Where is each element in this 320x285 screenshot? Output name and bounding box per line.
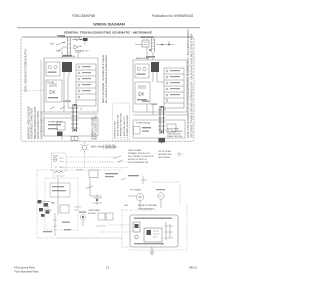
wire L1 top feed	[72, 39, 88, 41]
left bus wire outer	[41, 58, 44, 136]
fuse F1	[74, 38, 80, 40]
svg-text:4. POWER RELAY ASM: 4. POWER RELAY ASM	[126, 115, 129, 139]
marks under pair	[96, 225, 106, 227]
node J5	[96, 199, 98, 201]
box label smudge	[137, 99, 147, 100]
dashed drop right of M4	[179, 184, 181, 205]
HV diode D1	[50, 90, 54, 94]
svg-text:SENSING SW: SENSING SW	[158, 154, 171, 156]
PCB component cluster	[167, 124, 176, 132]
svg-text:FAN: FAN	[51, 202, 56, 205]
bottom-of-box label smudge 1	[142, 101, 149, 102]
label above box	[146, 56, 155, 58]
M4 label	[156, 189, 165, 190]
ladder component vertical pair	[152, 38, 155, 52]
svg-text:08/10: 08/10	[189, 265, 197, 269]
chassis boundary left	[36, 170, 38, 238]
svg-text:PRIMARY INTERLOCK: PRIMARY INTERLOCK	[128, 152, 150, 155]
lower note list	[103, 145, 116, 150]
power source box	[52, 153, 67, 171]
wire row y167	[60, 167, 128, 169]
filter box F2	[142, 40, 149, 47]
pcb top label smudge	[134, 218, 172, 220]
pcb left connector	[133, 222, 140, 232]
interlock switch SW2	[58, 48, 63, 50]
box internals diode	[139, 92, 143, 96]
connector dark mark	[135, 224, 139, 228]
pcb ground lead	[151, 247, 153, 252]
legend dashed box	[113, 103, 130, 140]
svg-text:Narrow door handle - Gri Leade: Narrow door handle - Gri Leader line to …	[102, 54, 105, 103]
inner dashed enclosure	[45, 178, 78, 230]
interlock switch SW3	[113, 156, 121, 158]
inner text box	[50, 183, 70, 197]
dashed wire into pcb 1	[108, 224, 130, 226]
label top small	[57, 35, 65, 36]
interlock legend block	[128, 149, 171, 164]
svg-text:H.V.TRANS: H.V.TRANS	[130, 188, 142, 191]
transformer cluster vertical pair	[160, 106, 164, 134]
wire below symbol	[84, 153, 86, 168]
outer schematic border top	[23, 36, 192, 38]
svg-text:*Non-Illustrated Parts: *Non-Illustrated Parts	[14, 270, 39, 274]
TB1 row dividers	[76, 70, 96, 100]
bottom stub component	[71, 137, 78, 141]
keypad terminal circles	[166, 70, 168, 72]
left schematic tiny labels	[47, 36, 89, 123]
pcb bottom terminal text	[134, 243, 164, 244]
cluster node bottom	[161, 131, 163, 133]
T2 label smudge	[137, 74, 146, 75]
node J1	[63, 42, 65, 44]
left text block	[88, 209, 100, 215]
power source terminals	[60, 158, 64, 162]
lower box component	[57, 122, 65, 130]
right feed wire	[135, 44, 174, 46]
RY2 legs	[153, 72, 157, 76]
ladder component vertical pair	[68, 38, 71, 58]
wire drops to main box	[62, 51, 78, 59]
outer schematic border sides and bottom	[21, 37, 194, 141]
dashed feed above M4	[152, 181, 180, 183]
keypad row dividers	[164, 74, 184, 103]
svg-text:1. DOOR SENSING SW: 1. DOOR SENSING SW	[118, 114, 120, 139]
fan motor M4	[158, 193, 164, 199]
svg-text:HV CAP: HV CAP	[47, 81, 55, 84]
cluster node bottom	[74, 129, 76, 131]
pcb title lines	[124, 204, 157, 210]
node J4	[168, 44, 170, 46]
bottom-right note block	[167, 129, 183, 139]
thermal cutout TCO1	[83, 38, 88, 41]
circle component lower mid	[81, 215, 86, 220]
M3 lead	[128, 196, 140, 208]
svg-text:PWB ASSEMBLY: PWB ASSEMBLY	[138, 207, 155, 210]
TB1 label smudges	[82, 66, 91, 67]
TB1 terminal circles	[78, 66, 80, 68]
lower box label smudge 2	[48, 128, 58, 129]
filter box inner mark	[144, 42, 148, 45]
svg-text:GENERAL TROUBLESHOOTING SCHEMA: GENERAL TROUBLESHOOTING SCHEMATIC - MICR…	[64, 30, 152, 34]
node J3	[161, 44, 163, 46]
PCB inner small box	[134, 127, 141, 135]
svg-text:DOOR CLOSED COND: DOOR CLOSED COND	[96, 115, 98, 140]
small coil near junction	[76, 169, 82, 170]
HV capacitor C1 box	[46, 80, 62, 102]
svg-text:MAGNETRON: MAGNETRON	[136, 57, 150, 60]
svg-text:SW2: SW2	[56, 50, 61, 52]
svg-text:LATCH ASM: LATCH ASM	[158, 156, 170, 159]
right schematic tiny labels	[136, 37, 167, 125]
transformer cluster vertical pair	[73, 104, 77, 132]
pcb circle component	[135, 235, 139, 239]
lower-left text smudge	[43, 231, 52, 232]
svg-text:MAGNETRON: MAGNETRON	[62, 55, 76, 58]
chain marks	[53, 220, 57, 226]
K1 inner marks	[153, 231, 159, 237]
svg-text:FUSE TCO SW: FUSE TCO SW	[140, 37, 154, 39]
C1 plates	[49, 84, 57, 86]
T2 coil 1	[137, 67, 140, 70]
low voltage transformer T2 box	[135, 64, 149, 78]
right small marks	[177, 152, 183, 157]
buzzer BZ1	[159, 138, 166, 143]
control PCB box	[130, 215, 178, 255]
footer functional parts note	[14, 266, 39, 274]
wires inside enclosure	[147, 76, 164, 115]
node J2	[80, 39, 82, 41]
svg-text:SW1: SW1	[50, 44, 55, 46]
terminal strip TB1	[76, 64, 96, 106]
marks right of it	[74, 207, 81, 210]
svg-text:ANY METAL PARTS OK: ANY METAL PARTS OK	[39, 111, 43, 139]
turntable motor M3	[136, 193, 143, 200]
svg-text:WIRING DIAGRAM: WIRING DIAGRAM	[93, 23, 125, 27]
chassis boundary bottom left	[37, 237, 122, 239]
label above ladder	[141, 36, 153, 38]
svg-text:WHEN TESTING: WHEN TESTING	[167, 136, 183, 138]
mid row label smudge 1	[105, 173, 118, 174]
right schematic main enclosure	[133, 60, 187, 112]
mid row junction mark	[141, 176, 147, 184]
circle label	[79, 212, 86, 213]
left partition dashed line	[22, 90, 45, 92]
left dashed boundary of pcb area	[122, 210, 158, 247]
M3 inner mark	[138, 195, 142, 199]
svg-text:NOISE FILTER ASM: NOISE FILTER ASM	[138, 204, 157, 207]
svg-text:SCHEMATIC SHOWN: SCHEMATIC SHOWN	[92, 117, 95, 140]
rotation symbol	[81, 143, 89, 169]
PCB inner label smudge	[142, 127, 151, 128]
box bottom marks	[54, 166, 63, 168]
svg-text:3. MONITOR SWITCH: 3. MONITOR SWITCH	[124, 116, 126, 138]
svg-text:Publication No: 5995W59402: Publication No: 5995W59402	[152, 14, 194, 18]
power source symbol	[53, 158, 57, 162]
mid smudge 2	[64, 229, 71, 230]
coil L2	[55, 172, 63, 174]
component near J5	[93, 194, 102, 205]
K1 dark mark	[147, 230, 152, 235]
control fuse box	[135, 82, 150, 104]
wire stub down right	[84, 41, 86, 45]
capacitor C0	[75, 51, 81, 53]
coil label	[56, 175, 64, 177]
cluster core bars	[71, 108, 79, 128]
ladder rungs	[68, 40, 71, 52]
svg-text:SYMBOLS USED: SYMBOLS USED	[115, 121, 117, 139]
mid row label smudge 3	[128, 175, 139, 176]
title rule	[17, 27, 200, 29]
pcb right components	[166, 222, 170, 240]
below-box component dark	[57, 132, 63, 137]
magnetron MG1 (dark block)	[62, 62, 72, 72]
svg-text:2. PRIMARY INTERLOCK: 2. PRIMARY INTERLOCK	[120, 113, 123, 139]
mid smudge 1	[62, 222, 70, 223]
svg-text:NF: NF	[79, 46, 82, 48]
vertical drop to enclosure	[147, 47, 153, 60]
junction small box	[89, 170, 98, 178]
dark connector cluster	[38, 200, 50, 217]
circle dark center	[82, 216, 84, 218]
label above box	[63, 55, 72, 57]
svg-text:CAV TCO: CAV TCO	[80, 49, 89, 52]
relay contact row	[50, 107, 65, 109]
svg-text:line connection to chassis asm: line connection to chassis asm ground te…	[105, 55, 108, 103]
chassis boundary top	[37, 169, 122, 171]
left lower vertical note column	[27, 106, 44, 139]
svg-text:NOTE: DISCONNECT POWER SUPPLY: NOTE: DISCONNECT POWER SUPPLY	[25, 48, 28, 92]
left chain wire down	[54, 213, 56, 236]
dashed supply wires	[37, 157, 187, 250]
M4 inner mark	[159, 195, 163, 197]
svg-text:FUSE TCO INTLK SW: FUSE TCO INTLK SW	[60, 36, 80, 38]
svg-text:MONITOR SWITCH: MONITOR SWITCH	[128, 159, 147, 161]
monitor switch SW1	[56, 42, 63, 44]
symbol inner dot	[55, 159, 56, 160]
left schematic main enclosure	[44, 58, 98, 112]
svg-text:SECONDARY INTERLOCK: SECONDARY INTERLOCK	[128, 155, 154, 158]
display PCB wide box	[133, 120, 185, 138]
connector cluster wires	[42, 182, 180, 236]
component chain at mid bottom	[90, 195, 102, 197]
left vertical wire 1	[53, 171, 55, 178]
svg-text:SWITCH ASM: SWITCH ASM	[128, 149, 141, 152]
svg-text:N.I.B: N.I.B	[53, 155, 58, 157]
svg-text:2. LATCH SW: 2. LATCH SW	[103, 147, 116, 150]
line to interlock legend	[66, 156, 116, 158]
inner box label smudge 1	[52, 186, 64, 187]
noise filter triangle	[74, 45, 78, 49]
cluster node top	[74, 104, 76, 106]
mid row small switch	[121, 178, 126, 180]
svg-text:DOOR SENSING SW: DOOR SENSING SW	[128, 162, 148, 164]
wire down from box	[89, 178, 91, 196]
wire row y162	[100, 161, 128, 163]
mid row wires	[133, 114, 187, 116]
pcb relay K1	[144, 228, 162, 242]
M4 lead down	[160, 199, 162, 208]
below-box wire	[62, 136, 75, 140]
bottom-of-box label smudge 2	[151, 104, 157, 105]
svg-text:# Functional Parts: # Functional Parts	[14, 266, 36, 270]
svg-text:T1: T1	[80, 109, 83, 111]
svg-text:FGBC30M5FBB: FGBC30M5FBB	[72, 14, 95, 18]
ladder rungs	[152, 40, 155, 49]
dashed wire lower mid	[58, 237, 122, 239]
box internals capacitor	[138, 86, 146, 88]
svg-text:DISCONNECT POWER BEFORE SERVIC: DISCONNECT POWER BEFORE SERVICING UNIT -…	[190, 33, 193, 138]
mid row wires	[44, 113, 98, 115]
lower box label smudge 1	[48, 124, 61, 125]
svg-text:SOCKET: SOCKET	[88, 213, 97, 215]
wire left junction	[62, 46, 67, 48]
switch SW4	[86, 186, 93, 188]
cluster core bars	[158, 110, 166, 130]
ground	[150, 252, 155, 255]
svg-text:OVEN LAMP: OVEN LAMP	[88, 209, 100, 212]
sub-box coil 1	[48, 65, 51, 68]
svg-text:CN1: CN1	[124, 205, 129, 207]
sub-box coil 2	[54, 65, 57, 68]
switch cluster mid	[118, 160, 123, 162]
small box pair	[98, 213, 105, 220]
membrane keypad strip	[164, 68, 184, 108]
left vertical wire 2	[57, 178, 59, 215]
C1 label smudge	[48, 97, 58, 98]
MG1 legs	[64, 72, 69, 76]
line to switch cluster	[66, 161, 112, 163]
inner wires	[64, 76, 76, 112]
node J5t	[149, 49, 151, 51]
svg-text:POWER RELAY: POWER RELAY	[48, 121, 63, 124]
sub-box label smudge	[48, 72, 57, 73]
dashed wire into pcb 2	[100, 231, 130, 233]
mid row label smudge 2	[105, 176, 114, 177]
keypad label smudges	[170, 70, 180, 71]
svg-text:POWER RELAY: POWER RELAY	[136, 122, 151, 125]
cluster node top	[161, 106, 163, 108]
svg-text:T1: T1	[164, 109, 167, 111]
svg-text:DOOR OPEN: DOOR OPEN	[158, 151, 171, 153]
pcb right marks	[164, 226, 173, 238]
component rect mid-left	[60, 205, 69, 213]
power supply sub-box	[46, 62, 60, 76]
relay RY2 (dark block)	[151, 62, 159, 72]
T2 coil 2	[143, 67, 146, 70]
label above mid row	[63, 101, 71, 102]
svg-text:13: 13	[106, 266, 110, 270]
lower wide box	[44, 118, 98, 136]
right dashed boundary outer	[128, 205, 187, 250]
wire up stub right	[168, 41, 170, 45]
vertical legend column	[115, 113, 129, 139]
wire below PCB	[161, 138, 163, 144]
wire down from circle	[82, 220, 84, 227]
inner box label smudge 2	[52, 190, 66, 191]
